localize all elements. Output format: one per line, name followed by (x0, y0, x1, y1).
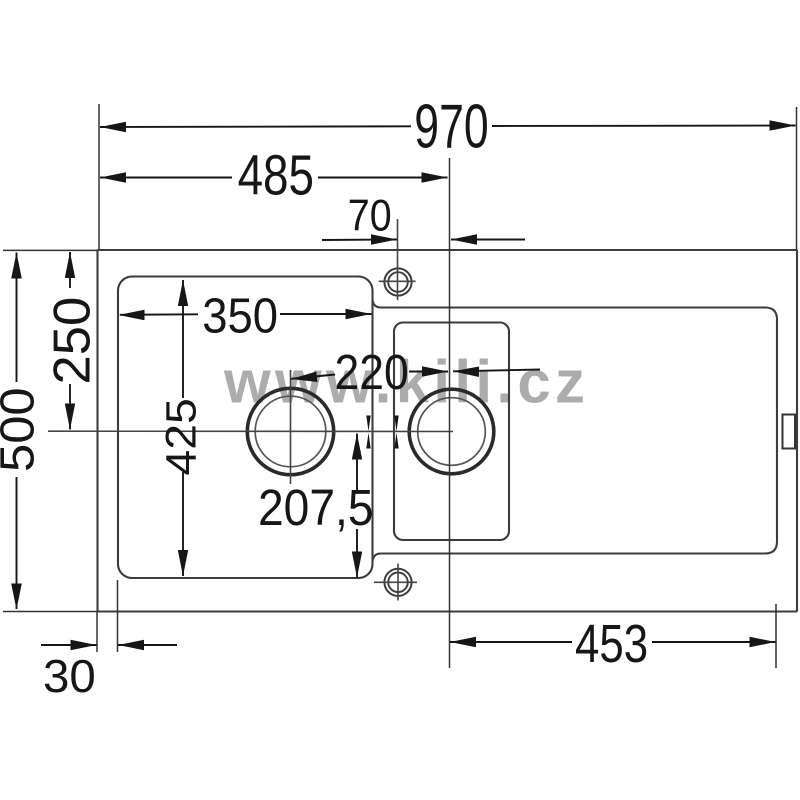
svg-text:485: 485 (238, 143, 314, 207)
svg-text:30: 30 (43, 650, 96, 702)
svg-text:250: 250 (44, 297, 102, 385)
svg-text:970: 970 (414, 92, 488, 162)
svg-text:453: 453 (575, 615, 648, 674)
svg-text:425: 425 (158, 398, 205, 475)
svg-text:220: 220 (335, 345, 409, 400)
svg-text:500: 500 (0, 387, 45, 472)
svg-text:70: 70 (348, 189, 392, 240)
svg-text:207,5: 207,5 (258, 479, 374, 536)
svg-text:350: 350 (202, 288, 278, 343)
